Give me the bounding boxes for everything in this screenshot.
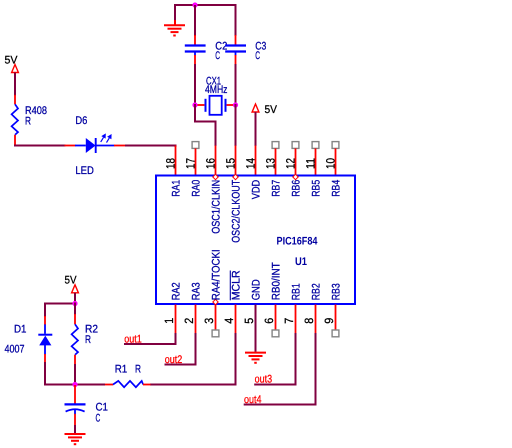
junction dot crystal right — [233, 102, 238, 107]
svg-text:15: 15 — [224, 158, 238, 169]
wire C2 lower — [194, 64, 196, 105]
pin 1 RA2 (bottom) — [175, 305, 177, 334]
junction dot 5V node — [72, 301, 77, 306]
LED arrows — [101, 137, 104, 142]
pin 3 RA4/TOCKI (bottom) — [215, 305, 217, 331]
pin 11 RB5 (top) — [312, 142, 319, 149]
svg-text:16: 16 — [204, 158, 218, 169]
wire 5V lower stem — [74, 293, 76, 305]
svg-text:RB1: RB1 — [291, 283, 303, 300]
pin 14 VDD (top) — [255, 146, 257, 175]
svg-text:RA3: RA3 — [191, 282, 203, 300]
svg-text:13: 13 — [264, 158, 278, 169]
pin 12 RB6 (top) — [292, 142, 299, 149]
wire C3 upper — [235, 4, 237, 36]
svg-text:12: 12 — [284, 158, 298, 169]
svg-text:11: 11 — [304, 158, 318, 169]
wire 5V node to D1 branch — [45, 304, 75, 317]
wire out1 (pin1 RA2) — [124, 333, 176, 344]
svg-text:R1: R1 — [115, 364, 128, 376]
svg-text:GND: GND — [251, 279, 263, 300]
pin 13 RB7 (top) — [272, 142, 279, 149]
pin 8 RB2 (bottom) — [315, 305, 317, 334]
wire ground stem top — [174, 4, 176, 20]
svg-text:RA0: RA0 — [191, 180, 203, 197]
wire top ground bus — [175, 4, 237, 6]
wire D1 to bottom bus — [45, 362, 76, 385]
svg-text:RB0/INT: RB0/INT — [271, 262, 283, 300]
wire C3 to OSC2 node — [235, 64, 237, 105]
wire bottom bus — [44, 384, 105, 386]
svg-text:6: 6 — [262, 318, 276, 324]
wire out3 (pin7 RB1) — [254, 333, 295, 385]
svg-text:4007: 4007 — [5, 344, 25, 356]
svg-text:5V: 5V — [5, 54, 19, 66]
svg-text:5V: 5V — [265, 104, 278, 116]
svg-text:7: 7 — [282, 318, 296, 324]
svg-text:17: 17 — [184, 158, 198, 169]
svg-text:OSC2/CLKOUT: OSC2/CLKOUT — [231, 180, 243, 243]
pin 10 RB4 (top) — [332, 142, 339, 149]
svg-text:U1: U1 — [295, 256, 307, 268]
svg-text:RB3: RB3 — [331, 283, 343, 300]
pin 9 RB3 (bottom) — [335, 305, 337, 331]
op IC U1 PIC16F84 body — [156, 176, 355, 305]
svg-text:RA1: RA1 — [171, 180, 183, 197]
wire 5V to R408 — [14, 73, 16, 96]
pin decoration diamond pin3 — [213, 299, 218, 304]
svg-text:18: 18 — [164, 158, 178, 169]
wire out4 (pin8 RB2) — [244, 333, 316, 405]
svg-text:R: R — [85, 334, 91, 346]
wire R2 to bottom bus — [74, 364, 76, 385]
svg-text:RA2: RA2 — [171, 282, 183, 300]
pin decoration diamonds top — [213, 174, 218, 179]
svg-text:C: C — [215, 50, 220, 62]
svg-text:RB5: RB5 — [311, 180, 323, 197]
svg-text:C: C — [96, 413, 101, 425]
svg-text:R: R — [25, 115, 31, 127]
capacitor C3 — [235, 35, 237, 45]
capacitor C2 — [194, 35, 196, 45]
svg-text:4: 4 — [222, 318, 236, 324]
ground G-pin5 — [245, 352, 266, 354]
svg-text:RB6: RB6 — [291, 180, 303, 197]
svg-text:VDD: VDD — [251, 180, 263, 200]
svg-text:5: 5 — [242, 318, 256, 324]
junction dot top bus — [192, 2, 197, 7]
svg-text:out1: out1 — [124, 334, 142, 346]
svg-text:3: 3 — [202, 318, 216, 324]
svg-text:9: 9 — [322, 318, 336, 324]
pin 16 OSC1/CLKIN (top) — [215, 146, 217, 175]
pin 6 RB0/INT (bottom) — [275, 305, 277, 331]
wire OSC2 (node to pin15) — [235, 104, 237, 146]
svg-text:4MHz: 4MHz — [205, 84, 228, 96]
pin 17 RA0 (top) — [192, 142, 199, 149]
pin 2 RA3 (bottom) — [195, 305, 197, 334]
wire out2 (pin2 RA3) — [165, 333, 196, 365]
svg-text:8: 8 — [302, 318, 316, 324]
junction dot crystal left — [192, 102, 197, 107]
pin 4 MCLR (bottom) — [235, 305, 237, 334]
pin 7 RB1 (bottom) — [295, 305, 297, 334]
wire C2 upper — [194, 5, 196, 36]
wire LED to pin18 — [125, 146, 176, 148]
pin 15 OSC2/CLKOUT (top) — [235, 146, 237, 175]
svg-text:R: R — [135, 364, 141, 376]
svg-text:RB2: RB2 — [311, 283, 323, 300]
wire MCLR (pin4 to R1) — [150, 333, 236, 385]
power 5V for VDD — [252, 104, 259, 112]
wire GND pin5 — [255, 305, 257, 352]
wire 5V to pin14 — [255, 112, 257, 146]
svg-text:D1: D1 — [14, 324, 27, 336]
svg-text:2: 2 — [182, 318, 196, 324]
wire R408 to LED — [14, 145, 66, 147]
svg-text:out4: out4 — [244, 394, 262, 406]
svg-text:RA4/TOCKI: RA4/TOCKI — [211, 249, 223, 300]
svg-text:D6: D6 — [75, 115, 87, 127]
junction dot bottom bus — [72, 382, 77, 387]
svg-text:14: 14 — [244, 158, 258, 169]
pin 18 RA1 (top) — [175, 146, 177, 175]
svg-text:PIC16F84: PIC16F84 — [277, 235, 319, 247]
svg-text:1: 1 — [162, 318, 176, 324]
svg-text:RB4: RB4 — [331, 180, 343, 197]
svg-text:RB7: RB7 — [271, 180, 283, 197]
ground G-C1 — [65, 433, 86, 435]
svg-text:MCLR: MCLR — [231, 270, 243, 300]
svg-text:LED: LED — [75, 165, 94, 177]
svg-text:out2: out2 — [165, 354, 183, 366]
wire C1 to ground — [74, 425, 76, 433]
ground G-top — [164, 24, 185, 26]
svg-text:OSC1/CLKIN: OSC1/CLKIN — [211, 180, 223, 234]
wire OSC1 elbow (crystal to pin16) — [195, 104, 216, 146]
svg-text:C: C — [255, 50, 260, 62]
resistor R408 — [14, 95, 16, 105]
MCLR overline — [229, 271, 231, 301]
svg-text:out3: out3 — [255, 374, 273, 386]
svg-text:10: 10 — [324, 158, 338, 169]
